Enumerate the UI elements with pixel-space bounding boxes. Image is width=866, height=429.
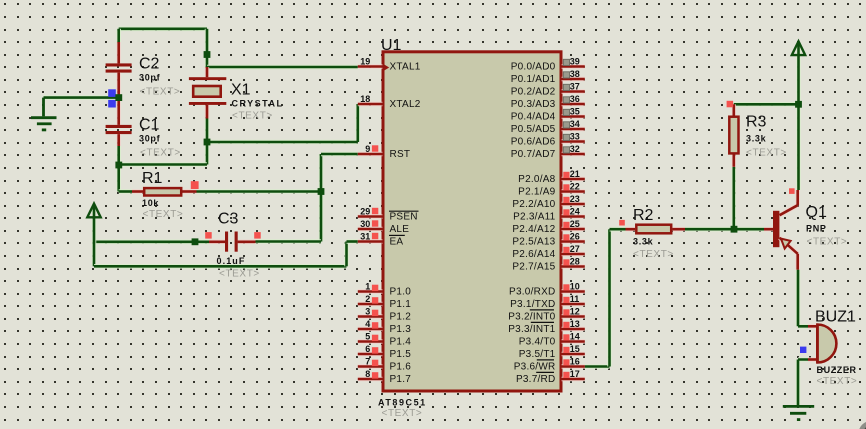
U1 pin line 5 xyxy=(358,339,383,343)
svg-text:P0.5/AD5: P0.5/AD5 xyxy=(511,124,556,135)
U1 pin line 34 xyxy=(562,127,585,131)
ground (left, C1/C2 midpoint) xyxy=(31,98,57,130)
svg-text:38: 38 xyxy=(570,69,580,79)
capacitor C2 top lead xyxy=(116,42,120,63)
blue handle below junction xyxy=(108,100,116,108)
U1 pin line 12 xyxy=(562,314,585,318)
junction dot R3 top / VCC xyxy=(795,101,802,108)
svg-text:10: 10 xyxy=(570,282,580,292)
svg-text:X1: X1 xyxy=(231,82,251,99)
marker square pin 1 xyxy=(372,285,378,291)
blue handle at buzzer xyxy=(800,347,806,353)
svg-text:P0.0/AD0: P0.0/AD0 xyxy=(511,62,556,73)
wire XTAL1 horizontal xyxy=(207,65,358,70)
svg-text:25: 25 xyxy=(570,219,580,229)
U1 pin line 11 xyxy=(562,302,585,306)
svg-text:10k: 10k xyxy=(142,198,159,208)
resistor R2 right lead xyxy=(673,227,686,231)
svg-text:17: 17 xyxy=(570,369,580,379)
crystal X1 top lead xyxy=(205,67,209,77)
svg-text:35: 35 xyxy=(570,107,580,117)
capacitor C3 right lead xyxy=(238,240,256,244)
svg-text:36: 36 xyxy=(570,94,580,104)
svg-text:4: 4 xyxy=(365,319,370,329)
wire R3 top to VCC xyxy=(734,102,799,107)
svg-text:7: 7 xyxy=(365,357,370,367)
svg-text:P0.4/AD4: P0.4/AD4 xyxy=(511,112,556,123)
wire P3.6 stub xyxy=(585,364,610,369)
marker square pin 33 xyxy=(563,134,569,140)
U1 pin line 31 xyxy=(358,239,383,243)
svg-text:22: 22 xyxy=(570,182,580,192)
svg-text:<TEXT>: <TEXT> xyxy=(140,87,181,98)
marker square pin 25 xyxy=(563,222,569,228)
svg-text:P2.6/A14: P2.6/A14 xyxy=(512,249,555,260)
svg-text:9: 9 xyxy=(365,144,370,154)
U1 pin line 14 xyxy=(562,339,585,343)
svg-text:P2.1/A9: P2.1/A9 xyxy=(518,187,556,198)
marker square pin 29 xyxy=(372,208,378,214)
resistor R3 body xyxy=(729,117,738,154)
svg-text:P1.2: P1.2 xyxy=(390,312,412,323)
wire net XTAL1 top horizontal xyxy=(119,26,207,31)
marker square pin 37 xyxy=(563,84,569,90)
capacitor C2 plates xyxy=(106,63,132,72)
svg-text:P1.4: P1.4 xyxy=(390,337,412,348)
capacitor C1 top lead xyxy=(116,98,120,125)
capacitor C3 plates xyxy=(225,232,238,252)
U1 pin line 36 xyxy=(562,102,585,106)
wire C2 top vertical xyxy=(116,29,121,42)
marker square pin 22 xyxy=(563,184,569,190)
U1 pin line 35 xyxy=(562,114,585,118)
crystal X1 body xyxy=(189,77,226,105)
U1 pin line 38 xyxy=(562,77,585,81)
marker square at R1 right xyxy=(191,181,199,189)
capacitor C1 bottom lead xyxy=(116,134,120,146)
svg-text:21: 21 xyxy=(570,169,580,179)
svg-text:<TEXT>: <TEXT> xyxy=(633,249,674,260)
marker square pin 7 xyxy=(372,360,378,366)
U1 pin line 16 xyxy=(562,364,585,368)
buzzer BUZ1 top stub xyxy=(808,324,816,328)
junction dot crystal top net xyxy=(204,51,211,58)
transistor Q1 collector lead xyxy=(780,190,798,215)
svg-text:P1.1: P1.1 xyxy=(390,299,412,310)
U1 pin line 9 xyxy=(358,152,383,156)
svg-text:P3.3/INT1: P3.3/INT1 xyxy=(508,324,555,335)
svg-text:30pf: 30pf xyxy=(139,134,161,144)
op-amp U1 body (AT89C51 chip) xyxy=(383,52,561,391)
marker square pin 27 xyxy=(563,247,569,253)
svg-text:<TEXT>: <TEXT> xyxy=(143,209,184,220)
svg-text:23: 23 xyxy=(570,194,580,204)
svg-text:16: 16 xyxy=(570,357,580,367)
blue handle above junction xyxy=(108,89,116,97)
svg-text:6: 6 xyxy=(365,344,370,354)
svg-text:P3.4/T0: P3.4/T0 xyxy=(519,337,556,348)
svg-text:BUZZER: BUZZER xyxy=(817,365,857,375)
wire C3 right to RST xyxy=(256,239,322,244)
svg-text:34: 34 xyxy=(570,119,580,129)
wire buzzer bottom to ground xyxy=(798,360,808,406)
junction dot C1 bottom / crystal net xyxy=(115,162,122,169)
junction dot crystal bottom / XTAL2 xyxy=(204,139,211,146)
U1 pin line 28 xyxy=(562,264,585,268)
svg-text:<TEXT>: <TEXT> xyxy=(382,408,423,419)
wire crystal-to-C1 horizontal xyxy=(119,162,207,167)
svg-text:CRYSTAL: CRYSTAL xyxy=(232,98,284,108)
junction dot R3 / R2 / Q1 base xyxy=(731,226,738,233)
svg-text:XTAL1: XTAL1 xyxy=(390,62,421,73)
U1 pin line 15 xyxy=(562,352,585,356)
crystal X1 bottom lead xyxy=(205,105,209,119)
svg-text:C3: C3 xyxy=(218,211,239,228)
svg-text:13: 13 xyxy=(570,319,580,329)
svg-text:P2.7/A15: P2.7/A15 xyxy=(512,262,555,273)
svg-text:C1: C1 xyxy=(139,116,160,133)
U1 pin line 27 xyxy=(562,252,585,256)
svg-text:PSEN: PSEN xyxy=(390,212,418,223)
U1 pin line 19 xyxy=(358,64,383,68)
svg-text:<TEXT>: <TEXT> xyxy=(817,376,858,387)
buzzer BUZ1 bottom stub xyxy=(808,357,816,361)
marker square pin 4 xyxy=(372,322,378,328)
marker square pin 16 xyxy=(563,359,569,365)
svg-text:BUZ1: BUZ1 xyxy=(815,309,856,326)
svg-text:P1.0: P1.0 xyxy=(390,287,412,298)
transistor Q1 emitter arrow (PNP) xyxy=(781,239,791,249)
marker square pin 26 xyxy=(563,234,569,240)
U1 active-low overlines (PSEN, EA, INT0, INT1, WR, RD) xyxy=(389,211,554,372)
U1 pin line 8 xyxy=(358,377,383,381)
U1 pin line 26 xyxy=(562,239,585,243)
svg-text:P3.2/INT0: P3.2/INT0 xyxy=(508,312,555,323)
U1 pin line 33 xyxy=(562,139,585,143)
resistor R1 left lead xyxy=(132,189,143,193)
power terminal arrow (left, +V) xyxy=(87,204,100,218)
wire R1 right to RST vertical xyxy=(197,189,322,194)
svg-text:P2.2/A10: P2.2/A10 xyxy=(512,199,555,210)
svg-text:33: 33 xyxy=(570,132,580,142)
svg-text:P1.6: P1.6 xyxy=(390,362,412,373)
transistor Q1 emitter lead xyxy=(780,238,798,270)
wire XTAL2 horizontal xyxy=(207,104,358,142)
svg-text:P0.3/AD3: P0.3/AD3 xyxy=(511,99,556,110)
U1 pin line 10 xyxy=(562,289,585,293)
wire ground to C1C2 junction xyxy=(44,95,117,100)
capacitor C3 left lead xyxy=(209,240,225,244)
svg-text:3: 3 xyxy=(365,307,370,317)
svg-text:P2.5/A13: P2.5/A13 xyxy=(512,237,555,248)
marker square pin 8 xyxy=(372,372,378,378)
wire R2 left stub xyxy=(610,227,626,232)
wire P3.6 vertical to R2 xyxy=(607,229,612,366)
svg-text:R1: R1 xyxy=(142,170,163,187)
marker square pin 28 xyxy=(563,259,569,265)
svg-text:14: 14 xyxy=(570,332,580,342)
wire VCC vertical xyxy=(796,43,801,190)
svg-text:19: 19 xyxy=(360,57,370,67)
junction dot C3 left lead xyxy=(192,238,199,245)
svg-text:29: 29 xyxy=(360,207,370,217)
svg-text:<TEXT>: <TEXT> xyxy=(807,237,848,248)
svg-text:28: 28 xyxy=(570,257,580,267)
svg-text:RST: RST xyxy=(390,149,411,160)
U1 pin line 24 xyxy=(562,214,585,218)
power terminal arrow (top right, +V) xyxy=(792,41,805,55)
wire power arrow stem xyxy=(92,205,97,266)
U1 pin line 39 xyxy=(562,64,585,68)
svg-text:12: 12 xyxy=(570,307,580,317)
U1 pin line 23 xyxy=(562,202,585,206)
marker square at R3 top xyxy=(727,101,734,108)
svg-text:<TEXT>: <TEXT> xyxy=(746,148,787,159)
wire EA stub xyxy=(347,239,358,244)
U1 XTAL1 clock arrow xyxy=(384,64,389,70)
resistor R3 top lead xyxy=(732,104,736,115)
svg-text:P1.3: P1.3 xyxy=(390,324,412,335)
svg-text:26: 26 xyxy=(570,232,580,242)
wire crystal top vertical xyxy=(205,29,210,67)
marker square pin 10 xyxy=(563,284,569,290)
svg-text:Q1: Q1 xyxy=(806,204,827,221)
marker square pin 12 xyxy=(563,309,569,315)
marker square pin 6 xyxy=(372,347,378,353)
svg-text:37: 37 xyxy=(570,82,580,92)
marker square at R2 left xyxy=(619,220,625,226)
svg-text:P1.5: P1.5 xyxy=(390,349,412,360)
capacitor C2 bottom lead xyxy=(116,73,120,98)
marker square at C3 right xyxy=(254,232,261,239)
marker square pin 5 xyxy=(372,335,378,341)
svg-text:P1.7: P1.7 xyxy=(390,374,412,385)
svg-text:31: 31 xyxy=(360,232,370,242)
svg-text:XTAL2: XTAL2 xyxy=(390,99,421,110)
U1 pin line 7 xyxy=(358,364,383,368)
U1 pin line 1 xyxy=(358,289,383,293)
svg-text:30: 30 xyxy=(360,219,370,229)
resistor R3 bottom lead xyxy=(732,155,736,167)
svg-text:ALE: ALE xyxy=(390,224,410,235)
U1 pin line 3 xyxy=(358,314,383,318)
transistor Q1 base bar xyxy=(773,211,779,247)
marker square pin 35 xyxy=(563,109,569,115)
svg-text:18: 18 xyxy=(360,94,370,104)
junction dot R1 / RST net xyxy=(318,188,325,195)
U1 pin line 30 xyxy=(358,227,383,231)
svg-text:5: 5 xyxy=(365,332,370,342)
wire EA bottom horizontal xyxy=(94,264,347,269)
svg-text:32: 32 xyxy=(570,144,580,154)
svg-text:U1: U1 xyxy=(381,37,402,54)
svg-text:2: 2 xyxy=(365,294,370,304)
U1 pin line 13 xyxy=(562,327,585,331)
svg-text:1: 1 xyxy=(365,282,370,292)
svg-text:P2.3/A11: P2.3/A11 xyxy=(513,212,556,223)
marker square pin 34 xyxy=(563,122,569,128)
marker square at C3 left xyxy=(205,232,212,239)
marker square pin 9 xyxy=(372,145,378,151)
marker square pin 38 xyxy=(563,72,569,78)
marker square pin 2 xyxy=(372,297,378,303)
resistor R2 body xyxy=(636,225,671,234)
svg-text:P0.1/AD1: P0.1/AD1 xyxy=(511,74,556,85)
svg-text:P3.0/RXD: P3.0/RXD xyxy=(509,287,555,298)
wire R2 to Q1 base xyxy=(685,227,764,232)
svg-text:15: 15 xyxy=(570,344,580,354)
U1 pin line 22 xyxy=(562,189,585,193)
svg-text:P3.7/RD: P3.7/RD xyxy=(516,374,556,385)
svg-text:R3: R3 xyxy=(746,114,767,131)
svg-text:<TEXT>: <TEXT> xyxy=(219,268,260,279)
svg-text:11: 11 xyxy=(570,294,580,304)
U1 pin line 37 xyxy=(562,89,585,93)
svg-text:3.3k: 3.3k xyxy=(633,237,654,247)
transistor Q1 base lead xyxy=(764,227,773,231)
marker square pin 3 xyxy=(372,310,378,316)
U1 pin line 29 xyxy=(358,214,383,218)
U1 pin line 6 xyxy=(358,352,383,356)
marker square pin 13 xyxy=(563,322,569,328)
marker square pin 30 xyxy=(372,220,378,226)
svg-text:R2: R2 xyxy=(633,207,654,224)
wire R3 bottom vertical xyxy=(731,167,736,229)
marker square at Q1 collector xyxy=(789,188,795,194)
svg-text:<TEXT>: <TEXT> xyxy=(232,110,273,121)
marker square pin 21 xyxy=(563,172,569,178)
svg-text:0.1uF: 0.1uF xyxy=(217,256,246,266)
wire RST vertical xyxy=(319,154,324,242)
svg-text:27: 27 xyxy=(570,244,580,254)
wire C3 left horizontal xyxy=(94,240,209,245)
svg-text:30pf: 30pf xyxy=(139,73,161,83)
junction dot C1/C2/ground node xyxy=(115,94,122,101)
wire RST horizontal xyxy=(321,152,358,157)
marker square pin 36 xyxy=(563,97,569,103)
marker square pin 14 xyxy=(563,334,569,340)
svg-text:P0.6/AD6: P0.6/AD6 xyxy=(511,137,556,148)
marker square pin 31 xyxy=(372,233,378,239)
svg-text:3.3k: 3.3k xyxy=(746,134,767,144)
svg-text:AT89C51: AT89C51 xyxy=(378,398,427,408)
svg-text:PNP: PNP xyxy=(806,224,827,234)
wire EA vertical xyxy=(344,242,349,267)
resistor R1 right lead xyxy=(182,189,197,193)
marker square pin 23 xyxy=(563,197,569,203)
marker square pin 15 xyxy=(563,347,569,353)
U1 pin line 21 xyxy=(562,177,585,181)
U1 pin line 2 xyxy=(358,302,383,306)
svg-text:P3.6/WR: P3.6/WR xyxy=(514,362,556,373)
svg-text:P0.7/AD7: P0.7/AD7 xyxy=(511,149,556,160)
svg-text:P3.5/T1: P3.5/T1 xyxy=(519,349,556,360)
U1 pin line 17 xyxy=(562,377,585,381)
marker square pin 32 xyxy=(563,147,569,153)
svg-text:P3.1/TXD: P3.1/TXD xyxy=(510,299,555,310)
svg-text:8: 8 xyxy=(365,369,370,379)
svg-text:24: 24 xyxy=(570,207,580,217)
svg-text:P2.0/A8: P2.0/A8 xyxy=(518,174,556,185)
U1 pin line 4 xyxy=(358,327,383,331)
U1 pin line 25 xyxy=(562,227,585,231)
resistor R2 left lead xyxy=(626,227,636,231)
svg-text:EA: EA xyxy=(390,237,404,248)
marker square pin 39 xyxy=(563,59,569,65)
svg-text:C2: C2 xyxy=(139,55,160,72)
UI corner blob (bottom-right) xyxy=(859,421,866,429)
marker square pin 24 xyxy=(563,209,569,215)
buzzer BUZ1 body xyxy=(817,325,836,363)
capacitor C1 plates xyxy=(106,125,132,134)
wire R1 left stub xyxy=(119,189,132,194)
resistor R1 body xyxy=(144,188,181,195)
marker square pin 17 xyxy=(563,372,569,378)
svg-text:P0.2/AD2: P0.2/AD2 xyxy=(511,87,556,98)
U1 pin line 18 xyxy=(358,102,383,106)
svg-text:39: 39 xyxy=(570,57,580,67)
wire Q1 emitter to buzzer xyxy=(798,270,808,327)
U1 pin line 32 xyxy=(562,152,585,156)
svg-text:<TEXT>: <TEXT> xyxy=(140,147,181,158)
svg-text:P2.4/A12: P2.4/A12 xyxy=(512,224,555,235)
wire C1 bottom vertical xyxy=(116,146,121,192)
wire crystal bottom vertical xyxy=(205,118,210,165)
ground (bottom right, buzzer) xyxy=(783,406,814,419)
marker square pin 11 xyxy=(563,297,569,303)
